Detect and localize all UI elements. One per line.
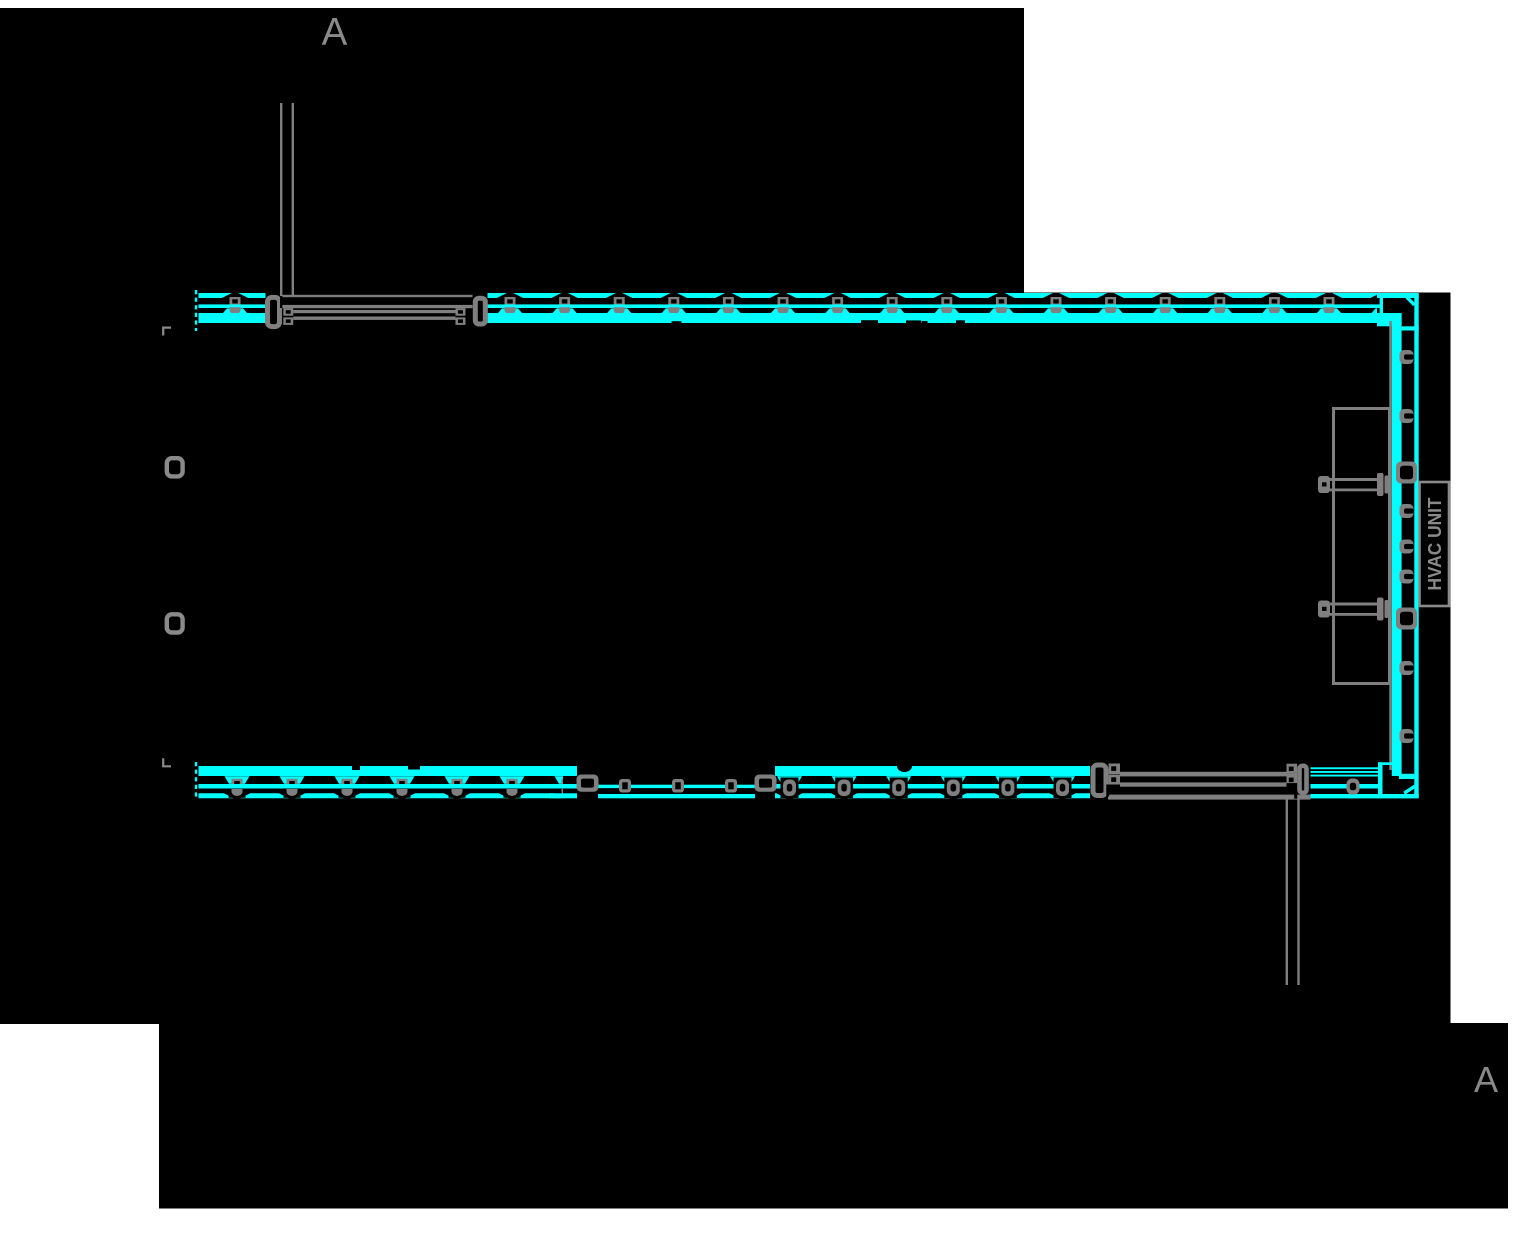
svg-text:A: A	[1474, 1059, 1498, 1100]
svg-text:HVAC UNIT: HVAC UNIT	[1425, 498, 1445, 591]
svg-text:A: A	[322, 11, 348, 54]
